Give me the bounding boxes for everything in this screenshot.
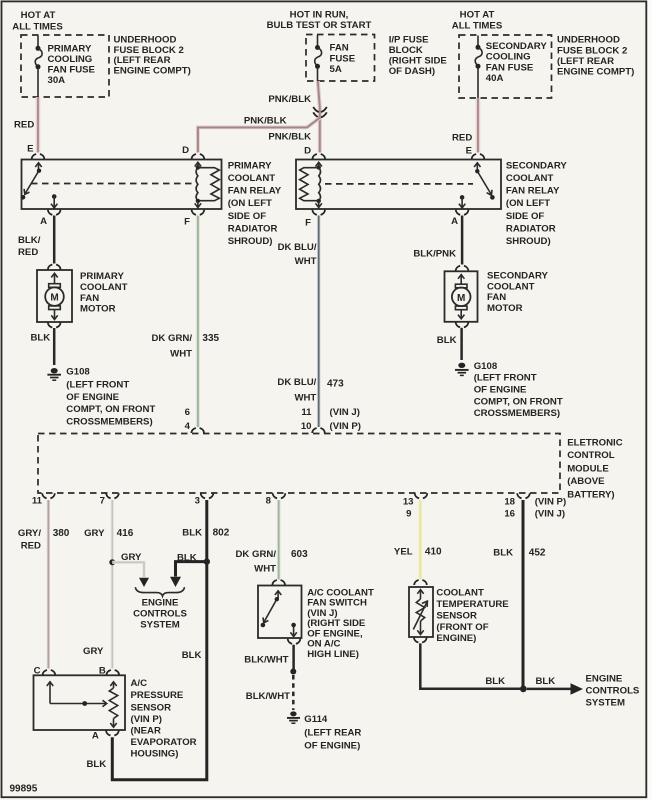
label: PRIMARY COOLANT FAN MOTOR (80, 271, 128, 315)
svg-text:BLK: BLK (87, 759, 107, 770)
svg-text:A: A (451, 216, 458, 227)
svg-text:8: 8 (266, 496, 272, 507)
svg-text:GRY: GRY (83, 646, 104, 657)
svg-text:BLK/: BLK/ (18, 235, 41, 246)
wire DK GRN/WHT 335 (primary relay F to ECM pin 4) (196, 216, 200, 428)
label ECM pin 6 (185, 407, 190, 418)
label terminal A (primary relay) (40, 216, 47, 227)
connector terminal A primary relay (48, 210, 61, 215)
wire BLK (temp sensor to junction) (420, 643, 520, 688)
svg-text:40A: 40A (486, 73, 504, 84)
connector ECM pin 10 (blue wire entry) (312, 428, 325, 433)
svg-text:D: D (182, 145, 189, 156)
svg-text:ALL TIMES: ALL TIMES (12, 22, 63, 33)
label wire BLK (802) (182, 528, 202, 539)
wire BLK/RED (primary relay A to primary fan motor) (53, 216, 56, 264)
svg-text:A: A (92, 731, 99, 742)
label ECM pin 9 (406, 509, 411, 520)
label: G114 (LEFT REAR OF ENGINE) (304, 714, 361, 752)
svg-text:MODULE: MODULE (567, 463, 609, 474)
label ECM pin 3 (195, 496, 200, 507)
connector terminal C pressure sensor (43, 670, 56, 675)
connector ECM pin 4 (green wire entry) (191, 428, 204, 433)
label ECM pin 13 (403, 496, 414, 507)
switch S1 A/C coolant fan switch box (258, 586, 302, 639)
wire BLK/PNK (secondary relay A to secondary fan motor) (461, 216, 464, 265)
connector primary motor output (48, 323, 61, 328)
svg-text:(ABOVE: (ABOVE (567, 476, 605, 487)
svg-text:G108: G108 (474, 361, 498, 372)
label: ELETRONIC CONTROL MODULE (ABOVE BATTERY) (567, 438, 623, 501)
label (VIN J) top (330, 407, 360, 418)
svg-text:SHROUD): SHROUD) (506, 236, 551, 247)
connector ECM pin 18 (517, 493, 530, 498)
label: UNDERHOOD FUSE BLOCK 2 (LEFT REAR ENGINE COMPT) (114, 35, 191, 77)
fuse F3 SECONDARY COOLING FAN FUSE 40A (475, 36, 547, 99)
svg-text:COOLANT: COOLANT (228, 173, 276, 184)
svg-text:(ON LEFT: (ON LEFT (506, 198, 550, 209)
svg-text:OF ENGINE: OF ENGINE (474, 385, 527, 396)
label (VIN J) bottom (535, 509, 565, 520)
svg-text:BLK: BLK (536, 676, 556, 687)
connector A/C coolant fan switch input (272, 580, 285, 585)
label wire BLK/WHT (upper) (244, 655, 288, 666)
wire BLK/WHT (switch to junction) (292, 645, 295, 669)
label: ENGINE CONTROLS SYSTEM (left) (133, 598, 187, 631)
svg-text:802: 802 (213, 528, 230, 539)
label wire BLK/RED (18, 235, 41, 258)
label ECM pin 11 (bottom) (32, 496, 43, 507)
svg-text:BLK: BLK (485, 676, 505, 687)
svg-text:603: 603 (291, 549, 308, 560)
connector terminal B pressure sensor (107, 670, 120, 675)
label terminal E (primary relay) (27, 144, 34, 155)
label ECM pin 11 (top) (301, 407, 312, 418)
svg-text:MOTOR: MOTOR (80, 304, 116, 315)
svg-text:(LEFT REAR: (LEFT REAR (114, 55, 171, 66)
label ECM pin 10 (301, 421, 312, 432)
sensor A/C pressure sensor box (34, 675, 126, 730)
svg-text:RED: RED (21, 540, 41, 551)
svg-text:GRY: GRY (84, 528, 105, 539)
svg-text:UNDERHOOD: UNDERHOOD (557, 35, 620, 46)
label wire GRY/RED (18, 528, 41, 552)
svg-text:335: 335 (202, 333, 219, 344)
svg-text:BLK: BLK (182, 650, 202, 661)
label circuit 416 (117, 528, 134, 539)
svg-text:(LEFT REAR: (LEFT REAR (557, 56, 614, 67)
svg-text:HOT AT: HOT AT (21, 10, 56, 21)
label: A/C PRESSURE SENSOR (VIN P) (NEAR EVAPORATOR HOUSING) (131, 678, 197, 760)
svg-text:COOLANT: COOLANT (436, 588, 484, 599)
wire BLK arrow to engine controls system (527, 683, 583, 694)
connector ECM pin 3 (201, 493, 214, 498)
label BLK (right of pressure sensor text) (182, 650, 202, 661)
svg-text:FAN RELAY: FAN RELAY (228, 186, 282, 197)
svg-text:(VIN J): (VIN J) (535, 509, 565, 520)
label circuit 452 (529, 548, 546, 559)
svg-text:RADIATOR: RADIATOR (228, 224, 278, 235)
label wire BLK/PNK (413, 249, 456, 260)
relay K1 switch (E to A) (21, 163, 58, 208)
label: I/P FUSE BLOCK (RIGHT SIDE OF DASH) (389, 34, 448, 77)
svg-text:BLK: BLK (493, 548, 513, 559)
relay K1 actuation dashed line (31, 183, 194, 185)
svg-text:UNDERHOOD: UNDERHOOD (114, 35, 177, 46)
svg-text:OF DASH): OF DASH) (389, 66, 435, 77)
wire GRY 416 (ECM pin 7 to pressure sensor B) (111, 500, 114, 669)
connector terminal E primary relay (32, 154, 45, 159)
svg-text:HOUSING): HOUSING) (131, 748, 179, 759)
svg-text:SIDE OF: SIDE OF (228, 211, 267, 222)
svg-text:(LEFT FRONT: (LEFT FRONT (66, 380, 129, 391)
svg-text:380: 380 (53, 528, 70, 539)
svg-text:ENGINE: ENGINE (586, 674, 623, 685)
label GRY (branch) (121, 552, 142, 563)
label terminal E (secondary relay) (466, 146, 473, 157)
label drawing number 99895 (10, 784, 38, 795)
junction GRY branch (109, 559, 115, 565)
svg-text:F: F (305, 217, 311, 228)
svg-text:DK BLU/: DK BLU/ (277, 377, 316, 388)
label terminal A (pressure sensor) (92, 731, 99, 742)
label terminal F (secondary relay) (305, 217, 311, 228)
svg-text:COOLING: COOLING (48, 54, 93, 65)
label circuit 473 (327, 378, 344, 389)
svg-text:WHT: WHT (254, 564, 276, 575)
svg-text:DK GRN/: DK GRN/ (235, 549, 276, 560)
svg-text:99895: 99895 (10, 784, 38, 795)
svg-text:30A: 30A (48, 75, 66, 86)
label wire DK GRN/WHT (603) (235, 549, 276, 575)
svg-text:FUSE: FUSE (330, 53, 356, 64)
svg-text:SECONDARY: SECONDARY (506, 160, 568, 171)
svg-text:473: 473 (327, 378, 344, 389)
svg-text:(FRONT OF: (FRONT OF (436, 622, 488, 633)
svg-text:16: 16 (504, 509, 515, 520)
svg-text:(VIN J): (VIN J) (330, 407, 360, 418)
label BLK (branch) (177, 553, 197, 564)
svg-text:9: 9 (406, 509, 411, 520)
svg-text:BLK/PNK: BLK/PNK (413, 249, 456, 260)
label terminal B (pressure sensor) (99, 666, 106, 677)
connector terminal A pressure sensor (106, 731, 119, 736)
label wire DK GRN/WHT (151, 333, 192, 359)
svg-text:FAN RELAY: FAN RELAY (506, 186, 560, 197)
label BLK (primary motor ground wire) (31, 333, 51, 344)
wire BLK branch (to engine controls system) (170, 562, 207, 587)
connector terminal F primary relay (192, 210, 205, 215)
wire BLK/WHT dashed (junction to G114) (292, 675, 295, 710)
label: G108 (LEFT FRONT OF ENGINE COMPT, ON FRONT CROSSMEMBERS) left (66, 367, 155, 428)
svg-text:SYSTEM: SYSTEM (140, 620, 179, 631)
svg-text:PNK/BLK: PNK/BLK (268, 94, 311, 105)
svg-text:5A: 5A (330, 64, 342, 75)
svg-text:RADIATOR: RADIATOR (506, 224, 556, 235)
label wire DK BLU/WHT (upper) (278, 242, 317, 267)
label PNK/BLK (below branch) (268, 131, 311, 142)
label ECM pin 8 (266, 496, 272, 507)
wire YEL 410 (ECM pin 13 to coolant temperature sensor) (418, 500, 422, 580)
wire RED (fuse to primary relay E) (36, 97, 41, 153)
svg-text:COMPT, ON FRONT: COMPT, ON FRONT (66, 404, 155, 415)
connector terminal F secondary relay (312, 210, 325, 215)
label terminal F (primary relay) (184, 217, 190, 228)
svg-text:4: 4 (185, 421, 191, 432)
svg-text:HOT IN RUN,: HOT IN RUN, (290, 10, 349, 21)
svg-text:HOT AT: HOT AT (460, 10, 495, 21)
connector ECM pin 8 (273, 493, 286, 498)
svg-text:COMPT, ON FRONT: COMPT, ON FRONT (474, 396, 563, 407)
svg-text:18: 18 (504, 496, 515, 507)
wire BLK (primary motor to G108) (53, 328, 56, 365)
label circuit 802 (213, 528, 230, 539)
svg-text:CROSSMEMBERS): CROSSMEMBERS) (474, 408, 560, 419)
svg-text:10: 10 (301, 421, 312, 432)
svg-text:(VIN P): (VIN P) (330, 421, 361, 432)
svg-text:(LEFT FRONT: (LEFT FRONT (474, 373, 537, 384)
svg-text:(ON LEFT: (ON LEFT (228, 198, 272, 209)
svg-text:BLK: BLK (31, 333, 51, 344)
fuse F1 PRIMARY COOLING FAN FUSE 30A (35, 36, 95, 98)
connector coolant temperature sensor output (414, 638, 427, 643)
svg-text:BATTERY): BATTERY) (567, 490, 614, 501)
brace grouping arrows (135, 587, 184, 596)
label wire YEL (394, 546, 413, 557)
svg-text:ALL TIMES: ALL TIMES (452, 20, 503, 31)
label: SECONDARY COOLANT FAN RELAY (ON LEFT SIDE OF RADIATOR SHROUD) (506, 160, 568, 247)
svg-text:SYSTEM: SYSTEM (586, 697, 625, 708)
label terminal A (secondary relay) (451, 216, 458, 227)
label (VIN P) top (330, 421, 361, 432)
svg-text:FAN FUSE: FAN FUSE (48, 65, 96, 76)
svg-text:BLOCK: BLOCK (389, 45, 423, 56)
relay K1 coil (D to F) (195, 162, 220, 207)
I/P fuse block dashed box (306, 35, 375, 82)
wire BLK 452 (ECM pin 18 to junction) (522, 500, 525, 687)
svg-text:I/P FUSE: I/P FUSE (389, 34, 429, 45)
svg-text:CONTROLS: CONTROLS (586, 685, 640, 696)
wire BLK (secondary motor to G108) (460, 328, 463, 360)
svg-text:WHT: WHT (295, 256, 317, 267)
svg-text:(NEAR: (NEAR (131, 725, 161, 736)
label BLK (secondary motor ground wire) (437, 335, 457, 346)
connector ECM pin 11 (bottom) (42, 493, 55, 498)
relay K2 switch (E to A) (459, 163, 495, 208)
wire GRY branch (to engine controls system) (112, 562, 149, 587)
relay K1 primary coolant fan relay box (22, 160, 222, 210)
svg-text:M: M (50, 293, 58, 304)
label: HOT IN RUN, BULB TEST OR START (267, 10, 372, 32)
ground G108 (left) (47, 368, 61, 380)
label: G108 (LEFT FRONT OF ENGINE COMPT, ON FRONT CROSSMEMBERS) right (474, 361, 563, 419)
connector terminal A secondary relay (456, 210, 469, 215)
label: COOLANT TEMPERATURE SENSOR (FRONT OF ENGINE) (436, 588, 509, 644)
svg-text:CROSSMEMBERS): CROSSMEMBERS) (66, 416, 152, 427)
wire BLK 802 (ECM pin 3 down, loops to pressure sensor A) (112, 500, 207, 780)
underhood fuse block 2 dashed box (left) (21, 35, 109, 97)
label BLK (left of junction) (485, 676, 505, 687)
svg-text:FAN FUSE: FAN FUSE (486, 62, 534, 73)
sensor coolant temperature sensor box (409, 587, 433, 637)
svg-text:RED: RED (14, 120, 34, 131)
svg-text:BLK/WHT: BLK/WHT (246, 691, 290, 702)
inline connector (PNK/BLK splice) (313, 107, 327, 117)
label circuit 380 (53, 528, 70, 539)
label terminal C (pressure sensor) (34, 666, 41, 677)
svg-text:EVAPORATOR: EVAPORATOR (131, 737, 197, 748)
label terminal D (primary relay) (182, 145, 189, 156)
svg-text:OF ENGINE: OF ENGINE (66, 392, 119, 403)
svg-text:DK GRN/: DK GRN/ (151, 333, 192, 344)
relay K2 actuation dashed line (325, 183, 473, 185)
svg-text:TEMPERATURE: TEMPERATURE (436, 599, 509, 610)
svg-text:BLK/WHT: BLK/WHT (244, 655, 288, 666)
svg-text:COOLANT: COOLANT (80, 282, 128, 293)
svg-text:DK BLU/: DK BLU/ (278, 242, 317, 253)
motor M2 secondary coolant fan motor (445, 271, 478, 322)
svg-text:BLK: BLK (437, 335, 457, 346)
label GRY (above pressure sensor B) (83, 646, 104, 657)
connector coolant temperature sensor input (414, 580, 427, 585)
label RED (right) (452, 133, 472, 144)
relay K2 coil (D to F) (300, 162, 322, 207)
label ECM pin 18 (504, 496, 515, 507)
label BLK (right of junction) (536, 676, 556, 687)
svg-text:PRIMARY: PRIMARY (228, 160, 272, 171)
svg-text:ENGINE COMPT): ENGINE COMPT) (557, 67, 634, 78)
wire RED (fuse to secondary relay E) (476, 98, 481, 153)
label BLK (pressure sensor return) (87, 759, 107, 770)
svg-text:3: 3 (195, 496, 200, 507)
svg-text:SENSOR: SENSOR (436, 610, 477, 621)
svg-text:GRY: GRY (121, 552, 142, 563)
svg-text:A: A (40, 216, 47, 227)
label circuit 603 (291, 549, 308, 560)
svg-text:COOLANT: COOLANT (506, 173, 554, 184)
svg-text:BLK: BLK (177, 553, 197, 564)
label: ENGINE CONTROLS SYSTEM (right) (586, 674, 640, 709)
svg-text:(VIN P): (VIN P) (131, 714, 162, 725)
underhood fuse block 2 dashed box (right) (459, 35, 552, 98)
svg-text:ENGINE: ENGINE (142, 598, 179, 609)
label ECM pin 16 (504, 509, 515, 520)
svg-text:E: E (27, 144, 34, 155)
svg-text:WHT: WHT (170, 348, 192, 359)
svg-text:PNK/BLK: PNK/BLK (244, 115, 287, 126)
wire GRY/RED 380 (ECM pin 11 to pressure sensor C) (47, 500, 50, 669)
svg-text:WHT: WHT (294, 392, 316, 403)
svg-text:YEL: YEL (394, 546, 413, 557)
motor M1 primary coolant fan motor (37, 270, 72, 322)
svg-text:13: 13 (403, 496, 414, 507)
svg-text:CONTROLS: CONTROLS (133, 609, 187, 620)
connector ECM pin 13 (415, 493, 428, 498)
junction BLK/WHT (290, 669, 296, 675)
junction BLK (452 meets sensor return) (520, 686, 527, 693)
svg-text:11: 11 (301, 407, 312, 418)
svg-text:RED: RED (18, 247, 38, 258)
svg-text:MOTOR: MOTOR (487, 303, 523, 314)
svg-text:ENGINE): ENGINE) (436, 633, 476, 644)
svg-text:ENGINE COMPT): ENGINE COMPT) (114, 66, 191, 77)
fuse F2 FAN FUSE 5A (315, 35, 356, 81)
wire DK GRN/WHT 603 (ECM pin 8 to A/C coolant fan switch) (277, 500, 281, 580)
svg-text:F: F (184, 217, 190, 228)
electronic control module dashed box (38, 434, 560, 494)
label ECM pin 4 (185, 421, 191, 432)
svg-text:PRIMARY: PRIMARY (48, 43, 92, 54)
svg-text:FAN: FAN (487, 292, 506, 303)
svg-text:SIDE OF: SIDE OF (506, 211, 545, 222)
svg-text:COOLANT: COOLANT (487, 281, 535, 292)
svg-text:M: M (457, 293, 465, 304)
svg-text:PNK/BLK: PNK/BLK (268, 131, 311, 142)
svg-text:FUSE BLOCK 2: FUSE BLOCK 2 (557, 45, 627, 56)
label ECM pin 7 (100, 496, 105, 507)
label: A/C COOLANT FAN SWITCH (VIN J) (RIGHT SIDE OF ENGINE, ON A/C HIGH LINE) (307, 588, 374, 660)
label: SECONDARY COOLANT FAN MOTOR (487, 271, 549, 315)
label circuit 335 (202, 333, 219, 344)
connector terminal D primary relay (192, 154, 205, 159)
label wire BLK (452) (493, 548, 513, 559)
label: HOT AT ALL TIMES (left feed) (12, 10, 63, 33)
wire PNK/BLK branch (diagonal and horizontal run to primary relay D) (198, 118, 320, 153)
label wire BLK/WHT (lower) (246, 691, 290, 702)
svg-text:SECONDARY: SECONDARY (487, 271, 549, 282)
svg-text:PRIMARY: PRIMARY (80, 271, 124, 282)
svg-text:COOLING: COOLING (486, 52, 531, 63)
connector secondary motor output (456, 322, 469, 327)
svg-text:SHROUD): SHROUD) (228, 236, 273, 247)
svg-text:(VIN P): (VIN P) (535, 496, 566, 507)
svg-text:ELETRONIC: ELETRONIC (567, 438, 623, 449)
svg-text:A/C: A/C (131, 678, 148, 689)
svg-text:452: 452 (529, 548, 546, 559)
svg-text:410: 410 (425, 546, 442, 557)
svg-text:RED: RED (452, 133, 472, 144)
svg-text:(RIGHT SIDE: (RIGHT SIDE (389, 55, 448, 66)
ground G108 (right) (455, 363, 469, 376)
svg-text:7: 7 (100, 496, 105, 507)
ground G114 (287, 711, 300, 723)
wire PNK/BLK (fuse to secondary relay D) (318, 81, 320, 153)
svg-text:BLK: BLK (182, 528, 202, 539)
svg-text:G114: G114 (304, 714, 328, 725)
label (VIN P) bottom (535, 496, 566, 507)
label circuit 410 (425, 546, 442, 557)
label RED (14, 120, 34, 131)
svg-text:G108: G108 (66, 367, 90, 378)
junction BLK branch (204, 558, 210, 564)
svg-text:11: 11 (32, 496, 43, 507)
connector terminal D secondary relay (313, 154, 326, 159)
relay K2 secondary coolant fan relay box (296, 160, 501, 210)
svg-text:OF ENGINE): OF ENGINE) (304, 741, 360, 752)
svg-text:FAN: FAN (80, 293, 99, 304)
label wire DK BLU/WHT (lower) (277, 377, 316, 403)
svg-text:HIGH LINE): HIGH LINE) (307, 649, 359, 660)
svg-text:6: 6 (185, 407, 190, 418)
svg-text:SENSOR: SENSOR (131, 703, 172, 714)
svg-text:PRESSURE: PRESSURE (131, 690, 184, 701)
label wire GRY (84, 528, 105, 539)
label PNK/BLK (left of branch) (244, 115, 287, 126)
svg-text:E: E (466, 146, 473, 157)
svg-text:416: 416 (117, 528, 134, 539)
label PNK/BLK (upper) (268, 94, 311, 105)
svg-text:FAN: FAN (330, 43, 349, 54)
